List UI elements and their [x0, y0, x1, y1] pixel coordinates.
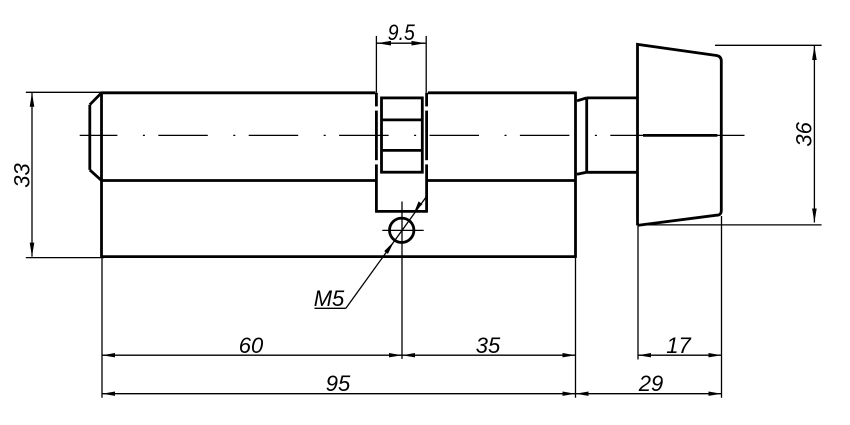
svg-text:M5: M5 — [314, 286, 345, 311]
svg-text:36: 36 — [792, 121, 817, 146]
svg-text:35: 35 — [476, 333, 501, 358]
svg-text:95: 95 — [326, 371, 351, 396]
svg-text:33: 33 — [10, 163, 35, 188]
svg-text:60: 60 — [239, 333, 264, 358]
svg-text:9.5: 9.5 — [388, 20, 416, 45]
svg-text:17: 17 — [666, 333, 691, 358]
svg-text:29: 29 — [638, 371, 663, 396]
